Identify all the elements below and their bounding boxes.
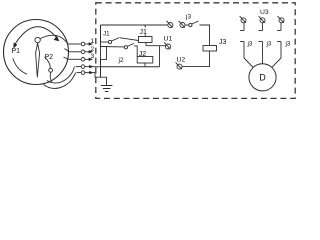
svg-text:2: 2 [91,46,95,53]
socket U1 upper right [179,21,185,28]
wire bottom rail [101,66,160,68]
enclosure dashed box [96,3,295,99]
relay coil J2 [137,57,153,64]
svg-text:1: 1 [91,38,95,45]
wire coil J1 stub top [144,25,146,28]
gauge rotation arrow [13,27,59,49]
svg-text:U3: U3 [260,9,269,16]
wire terminal row 5 [77,72,82,74]
svg-text:j3: j3 [285,41,291,48]
wire top rail [101,24,168,26]
wire motor lead c [271,58,281,68]
gauge coil junction circle [49,68,53,72]
relay coil J1 [139,37,153,43]
wire terminal row 4 [76,66,82,68]
svg-text:J3: J3 [219,39,227,46]
wire gauge lead stub 1 [40,35,68,44]
wire gauge lead curve row 5 [44,73,76,89]
wire gauge lead stub 2 [65,49,70,52]
terminal circle 1 [81,42,85,46]
wire arrow 4 into box [85,66,101,68]
gauge P outer circle [4,20,69,85]
wire row 5 to ground [95,73,101,78]
svg-text:J1: J1 [103,31,110,38]
motor D [249,64,276,91]
gauge coil arc lower-left [13,58,27,74]
socket U3 c [278,16,284,23]
socket U3 b [259,16,265,23]
svg-text:U1: U1 [164,36,173,43]
socket U1 lower [164,42,170,49]
gauge coil arc upper-right [45,57,51,68]
wire motor lead a [244,58,254,68]
wire motor lead b [262,58,264,64]
wire terminal row 2 [69,51,81,53]
switch J2 arm [127,43,134,46]
svg-text:P1: P1 [12,48,21,55]
svg-text:j3: j3 [266,41,272,48]
svg-text:P2: P2 [45,54,54,61]
svg-text:j2: j2 [118,57,124,64]
wire arrow 2 [85,51,89,53]
svg-text:J1: J1 [140,29,148,36]
wire coil J3 bottom [182,51,209,67]
terminal circle 4 [81,65,85,69]
wire to J3 switch [185,24,188,26]
gauge needle pivot [35,37,40,42]
wire ground jog [101,77,107,85]
wire J3 switch to coil [200,25,210,46]
svg-text:j3: j3 [247,41,253,48]
socket U3 a [240,16,246,23]
terminal circle 5 [81,71,85,75]
switch J1 pivot [108,40,111,43]
wire left rail [100,25,102,47]
svg-text:U2: U2 [177,57,186,64]
svg-text:j3: j3 [185,14,191,21]
wire coil J1 bottom stub [145,43,147,46]
terminal circle 2 [81,50,85,54]
socket U2 [176,62,182,69]
wire terminal row 3 [68,58,81,60]
socket U1 upper left [167,21,173,28]
svg-text:3: 3 [91,53,95,60]
wire U1 test branch [146,45,166,47]
wire J2 contact branch [101,46,125,48]
wire coil J2 bottom stub [144,63,146,67]
wire terminal row 1 [68,43,81,45]
wire J1 contact to coil [120,38,139,41]
switch J2 pivot [124,46,127,49]
wire arrow 3 [85,58,89,60]
wire gauge lead curve row 4 [47,67,75,83]
switch J3 pivot [189,23,192,26]
contact J3 phase a [240,23,244,58]
switch J3 arm [192,21,199,24]
wire arrow 5 [85,72,95,74]
terminal circle 3 [81,58,85,62]
relay coil J3 [203,46,217,52]
wire gauge lead stub 3 [64,57,69,59]
svg-text:D: D [259,72,266,82]
gauge coil arc lower [50,72,52,81]
wire J1 contact branch [101,41,109,43]
switch J1 arm [112,38,120,42]
contact J3 phase b [259,23,263,58]
resistor box on rail [101,47,107,60]
wire arrow 1 [85,43,89,45]
wire U1 branch to bottom rail [159,46,161,67]
ground [101,86,113,92]
wire J2 contact to coil [134,46,137,57]
gauge needle [36,43,40,77]
contact J3 phase c [277,23,281,58]
